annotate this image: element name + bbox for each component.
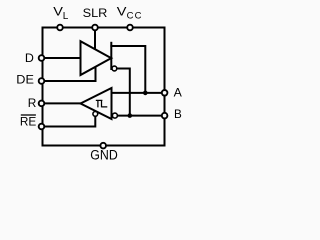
label RE overline — [21, 114, 36, 116]
node junction A — [143, 91, 148, 96]
inverter bubble driver Z — [112, 66, 117, 71]
svg-text:D: D — [25, 51, 34, 65]
pin RE — [39, 124, 45, 130]
wire B net — [118, 115, 162, 117]
svg-text:V: V — [117, 7, 127, 19]
pin VCC — [127, 25, 133, 31]
svg-text:L: L — [63, 11, 69, 22]
wire driver Z to B — [117, 69, 130, 116]
wire A net — [113, 92, 162, 94]
svg-text:DE: DE — [16, 73, 34, 87]
svg-text:A: A — [174, 86, 182, 100]
node junction B — [128, 113, 133, 118]
svg-text:B: B — [174, 107, 182, 121]
op-amp driver triangle — [81, 41, 112, 75]
pin B — [162, 113, 168, 119]
pin DE — [39, 78, 45, 84]
pin SLR — [92, 25, 98, 31]
wire SLR stub — [94, 29, 96, 49]
wire RE input — [44, 116, 95, 126]
op-amp receiver triangle — [81, 88, 112, 119]
svg-text:CC: CC — [127, 10, 143, 21]
pin GND — [100, 143, 106, 149]
svg-text:RE: RE — [20, 115, 36, 129]
svg-text:GND: GND — [90, 148, 118, 163]
IC body U1 — [43, 28, 165, 146]
wire D input — [44, 57, 80, 59]
pin D — [39, 55, 45, 61]
wire driver output bus — [110, 42, 112, 70]
pin A — [162, 90, 168, 96]
svg-text:SLR: SLR — [83, 6, 108, 20]
wire R output — [44, 102, 81, 104]
inverter bubble receiver B input — [112, 113, 117, 118]
hysteresis symbol — [96, 100, 108, 107]
wire DE input — [44, 66, 96, 81]
pin VL — [57, 25, 63, 31]
wire driver Y to A — [110, 46, 145, 93]
svg-text:R: R — [28, 96, 37, 110]
pin R — [39, 101, 45, 107]
inverter bubble receiver enable — [93, 112, 98, 117]
